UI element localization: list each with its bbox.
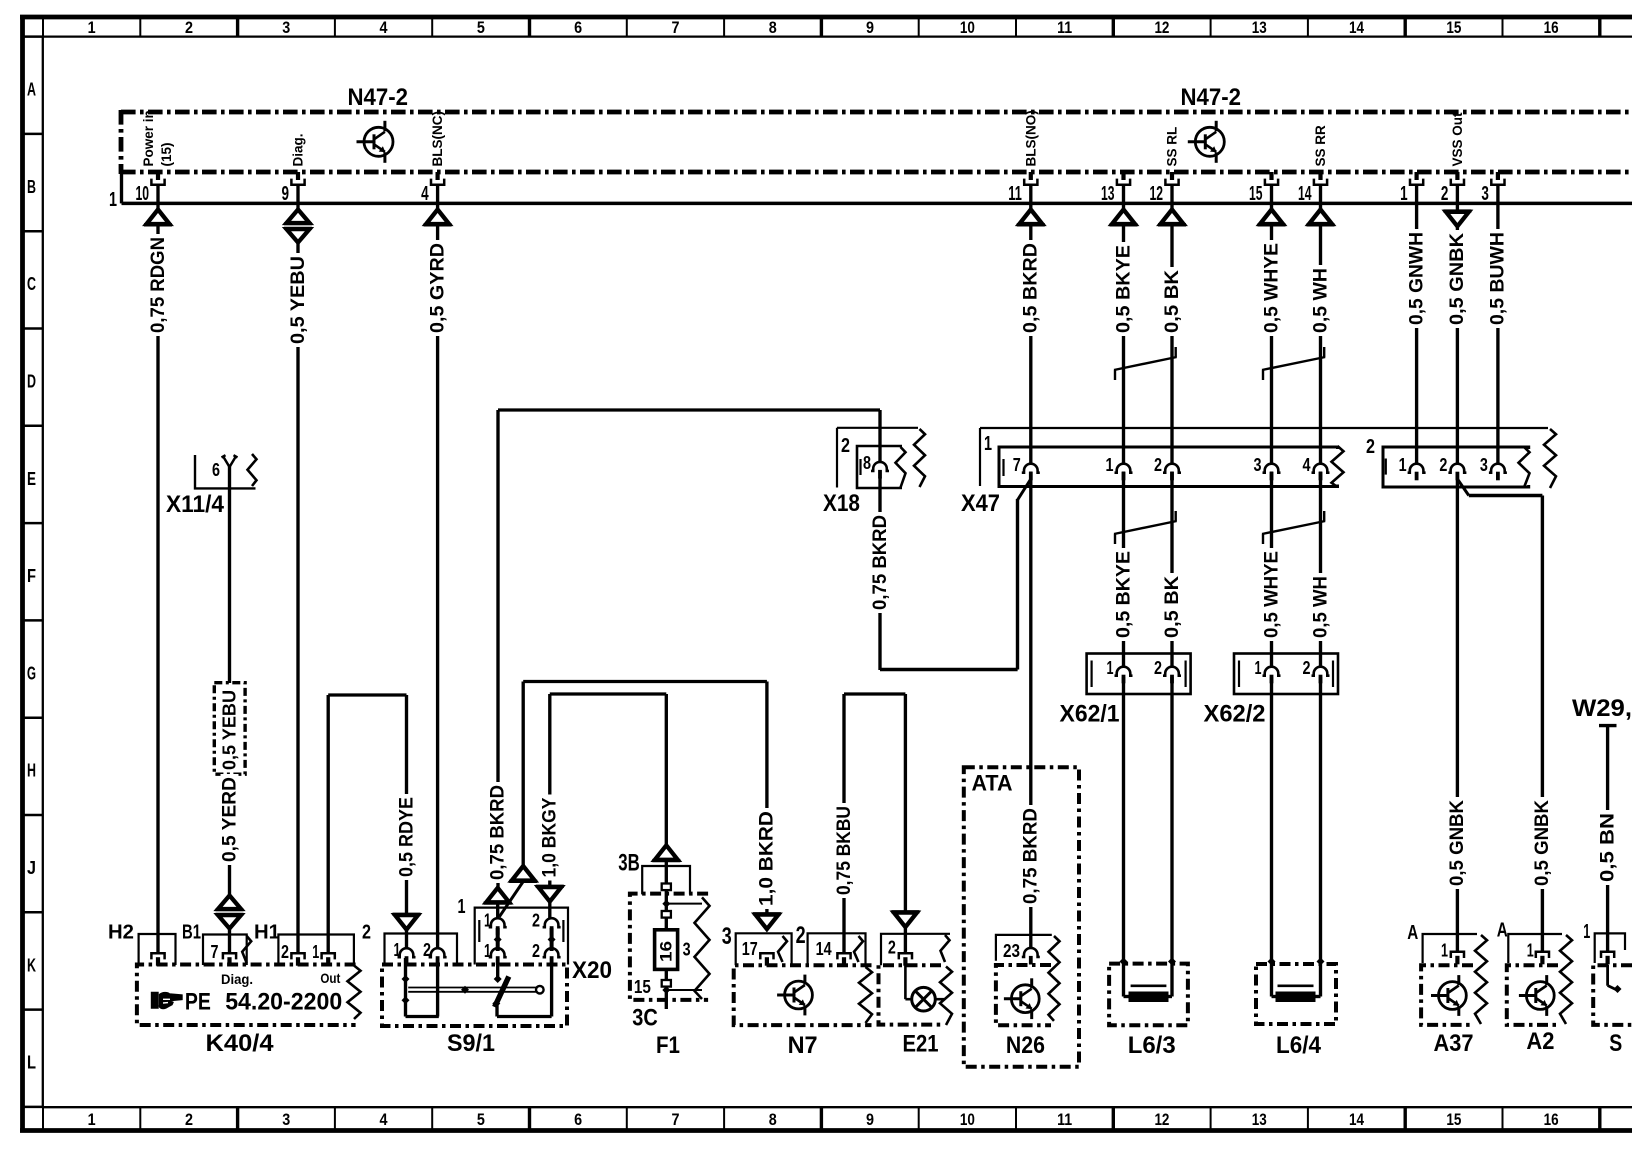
wire jog X47-2 pin2 to A2 (1457, 479, 1468, 496)
pin 13 of N47-2 at x=1123.5 (1121, 172, 1125, 180)
svg-text:0,5 GNBK: 0,5 GNBK (1447, 800, 1468, 886)
fuse element 16 of F1 (655, 930, 678, 970)
S9/1 switch blade right (496, 958, 499, 980)
wire label 1,0 BKRD (758, 808, 776, 909)
wire jog X47 pin7 to X18 branch (1018, 479, 1031, 500)
pin 9 of N47-2 at x=298.0 (296, 172, 300, 180)
connector X47 bracket with label 1 (979, 428, 981, 486)
S9/1 slider bar (408, 987, 540, 989)
wire label 0,5 GYRD (429, 240, 447, 336)
svg-text:A: A (27, 79, 36, 100)
connector X18 bracket with label 2 (836, 428, 838, 488)
wire label 0,5 GNBK to A37 (1448, 797, 1466, 889)
svg-text:16: 16 (1544, 1111, 1559, 1129)
connector X20 box over S9/1 right (475, 908, 568, 965)
pin 10 of N47-2 at x=158.0 (156, 172, 160, 180)
F1 internal wiring lower (665, 969, 668, 1009)
svg-text:0,5 YEBU: 0,5 YEBU (219, 690, 239, 770)
svg-text:C: C (27, 273, 36, 294)
wire 0,5 BKRD pin11 to X47 pin7 and N26 (1029, 185, 1032, 210)
svg-text:A37: A37 (1434, 1030, 1474, 1057)
direction arrow pin 4 wire (426, 210, 449, 225)
wire 0,75 BKRD below X18 (878, 478, 881, 671)
svg-text:1: 1 (88, 1111, 96, 1129)
svg-text:2: 2 (796, 922, 806, 949)
svg-text:54.20-2200: 54.20-2200 (225, 989, 342, 1016)
svg-text:0,75 BKRD: 0,75 BKRD (488, 785, 509, 880)
svg-text:11: 11 (1057, 1111, 1072, 1129)
junction dots on L6/3 (1120, 958, 1128, 966)
svg-text:X18: X18 (823, 490, 860, 517)
transistor icon inside N47-2 right (1195, 127, 1224, 156)
svg-text:2: 2 (1366, 436, 1375, 458)
svg-text:N7: N7 (788, 1032, 818, 1059)
pin 14 of N47-2 at x=1320.5 (1318, 172, 1322, 180)
svg-text:3: 3 (722, 923, 732, 950)
svg-text:1: 1 (312, 941, 319, 962)
svg-text:2: 2 (532, 910, 540, 931)
top ruler column separators (42, 17, 44, 37)
switch S9/1 dash-dot box (382, 965, 567, 1027)
direction arrow on N7 pin17 wire (753, 912, 781, 915)
bracket B1 with pin 7 (203, 935, 247, 966)
svg-text:(15): (15) (159, 142, 174, 166)
svg-text:BLS(NO): BLS(NO) (1023, 110, 1038, 166)
svg-text:0,5 WHYE: 0,5 WHYE (1261, 243, 1282, 333)
svg-text:X47: X47 (961, 490, 1000, 517)
svg-text:2: 2 (1154, 657, 1162, 678)
svg-text:Power in: Power in (141, 110, 156, 166)
svg-text:A2: A2 (1526, 1028, 1554, 1055)
svg-text:A: A (1497, 920, 1508, 942)
svg-text:8: 8 (769, 1111, 777, 1129)
svg-text:14: 14 (816, 938, 833, 959)
svg-text:SS RR: SS RR (1313, 125, 1328, 167)
svg-text:1: 1 (1527, 940, 1534, 961)
fuse F1 dash-dot box (630, 894, 708, 1000)
bracket connector A of A2 (1508, 934, 1562, 963)
svg-text:A: A (1407, 922, 1418, 944)
direction arrow on E21 wire (891, 910, 919, 913)
svg-text:B: B (27, 176, 36, 197)
svg-text:2: 2 (841, 435, 850, 457)
svg-text:0,5 WH: 0,5 WH (1310, 576, 1331, 638)
svg-text:Diag.: Diag. (221, 971, 253, 987)
connector X47 part 1 box (999, 447, 1338, 487)
svg-text:1: 1 (1106, 454, 1114, 475)
pointing hand icon (152, 993, 159, 1009)
svg-text:X62/1: X62/1 (1060, 701, 1120, 728)
svg-text:17: 17 (742, 938, 758, 959)
svg-text:L: L (27, 1052, 36, 1073)
bracket connector A of A37 (1423, 934, 1477, 963)
svg-text:6: 6 (574, 1111, 582, 1129)
direction arrow on F1 wire (655, 845, 678, 860)
transistor icon inside A2 (1526, 982, 1554, 1010)
svg-text:2: 2 (362, 921, 371, 943)
twisted pair crossing WHYE/WH upper (1262, 370, 1264, 380)
wire 0,5 BN from W29 to S (1606, 726, 1609, 952)
svg-text:7: 7 (671, 1111, 679, 1129)
wire label 0,5 BKRD top (1022, 240, 1040, 336)
svg-text:H1: H1 (254, 922, 280, 944)
wire label 0,75 BKRD to X20 (489, 782, 507, 883)
svg-text:10: 10 (960, 19, 975, 37)
direction arrow pin 14 wire (1309, 210, 1332, 225)
bus line 1 below N47-2 (120, 170, 123, 203)
bracket H1 with pins 2 and 1 (278, 935, 354, 966)
wire 0,5 BUWH pin3 to X47-2 (1496, 185, 1499, 464)
svg-text:SS RL: SS RL (1165, 127, 1180, 167)
speed sensor L6/4 dash-dot box (1256, 964, 1336, 1024)
wire label 0,75 BKRD to N26 (1022, 805, 1040, 907)
wire label 0,5 GNWH (1408, 229, 1426, 328)
svg-text:6: 6 (212, 459, 220, 480)
pin 4 of N47-2 at x=437.6 (436, 172, 440, 180)
svg-text:0,5 YEBU: 0,5 YEBU (288, 256, 309, 344)
svg-text:N47-2: N47-2 (348, 84, 409, 111)
pin 1 of X62/2 (1263, 667, 1281, 676)
wire label 0,5 WH top (1312, 265, 1330, 336)
bracket pin 23 of N26 (996, 935, 1052, 961)
left ruler row separators (23, 35, 43, 38)
svg-text:23: 23 (1003, 940, 1020, 961)
svg-text:PE: PE (185, 989, 211, 1016)
svg-text:E21: E21 (903, 1031, 939, 1058)
svg-text:11: 11 (1057, 19, 1072, 37)
svg-text:5: 5 (477, 19, 485, 37)
svg-text:2: 2 (532, 940, 540, 961)
F1 internal wiring (665, 890, 668, 930)
connector level 2 bracket over S9/1 (385, 934, 458, 965)
inductor symbol inside L6/3 (1131, 984, 1167, 987)
svg-text:Out: Out (320, 970, 340, 986)
svg-text:0,5 GYRD: 0,5 GYRD (427, 243, 448, 333)
wire X18 riser to X20 branch line (878, 410, 881, 462)
direction arrow on wire to X20 pin1 (512, 866, 535, 881)
pin 15 of N47-2 at x=1271.5 (1269, 172, 1273, 180)
pin 3 of X47 part 2 (1489, 464, 1507, 473)
wire 0,5 GNBK pin2 to X47-2 (1456, 185, 1459, 211)
svg-text:X11/4: X11/4 (166, 491, 225, 518)
svg-text:0,5 YERD: 0,5 YERD (219, 777, 240, 862)
svg-text:4: 4 (380, 19, 389, 37)
svg-text:1: 1 (1107, 657, 1114, 678)
wire 0,5 GNWH pin1 to X47-2 (1415, 185, 1418, 464)
svg-text:8: 8 (863, 452, 871, 473)
svg-text:15: 15 (1446, 19, 1461, 37)
svg-text:3: 3 (282, 19, 290, 37)
transistor icon inside N47-2 left (364, 127, 393, 156)
svg-text:Diag.: Diag. (291, 133, 306, 166)
wire 0,5 WH pin14 to X47 (1319, 185, 1322, 210)
svg-text:BLS(NC): BLS(NC) (430, 111, 445, 167)
svg-text:N47-2: N47-2 (1181, 84, 1242, 111)
pin 3 of X47 part 1 (1263, 464, 1281, 473)
svg-text:2: 2 (1303, 657, 1311, 678)
direction arrow pin 2 wire (VSS Out) (1443, 209, 1471, 212)
svg-text:2: 2 (185, 1111, 193, 1129)
wire label 0,5 GNBK to A2 (1533, 797, 1551, 889)
wire label 0,5 YERD (221, 774, 239, 865)
connector X18 inner box (857, 446, 902, 488)
wire N7 pin14 to E21 (0,75 BKBU) (844, 692, 905, 695)
control module A37 dash-dot box (1421, 965, 1473, 1025)
direction arrow pin 12 wire (1161, 210, 1184, 225)
wire N7 pin17 branch to X20 (upper line) (523, 680, 767, 683)
svg-text:1: 1 (88, 19, 96, 37)
lamp E21 dash-dot box (879, 965, 942, 1024)
wire 0,75 BKRD into X20 pin1 vertical (496, 903, 499, 919)
svg-text:13: 13 (1252, 19, 1267, 37)
svg-text:1: 1 (458, 896, 466, 918)
svg-text:1,0 BKGY: 1,0 BKGY (540, 797, 561, 877)
svg-text:0,5 GNBK: 0,5 GNBK (1532, 800, 1553, 886)
svg-text:0,5 RDYE: 0,5 RDYE (396, 797, 417, 877)
svg-text:9: 9 (866, 19, 874, 37)
wire 0,5 BK pin12 to X47 (1170, 185, 1173, 210)
svg-text:F: F (27, 565, 36, 586)
svg-text:1: 1 (1441, 940, 1448, 961)
svg-text:L6/4: L6/4 (1276, 1032, 1322, 1059)
bracket pin 2 of E21 (881, 934, 950, 966)
svg-text:10: 10 (960, 1111, 975, 1129)
svg-text:1,0 BKRD: 1,0 BKRD (757, 811, 778, 906)
svg-text:0,5 BK: 0,5 BK (1162, 270, 1183, 333)
pin 1 of X62/1 (1115, 667, 1133, 676)
svg-text:H: H (27, 760, 36, 781)
wires X62/2 to L6/4 (1270, 677, 1273, 997)
svg-text:X62/2: X62/2 (1204, 701, 1266, 728)
wire 0,5 WHYE X47 to X62/2 (1270, 472, 1273, 667)
svg-text:0,5 BK: 0,5 BK (1162, 576, 1183, 638)
wire label 0,5 WH lower (1312, 573, 1330, 641)
svg-text:9: 9 (866, 1111, 874, 1129)
wire K40/4 Out pin1 to X20 pin1 (0,5 RDYE) (327, 695, 330, 953)
wire 0,5 BKYE pin13 to X47 (1122, 185, 1125, 210)
svg-text:1: 1 (109, 189, 117, 211)
pin 2 of X62/2 (1312, 667, 1330, 676)
bottom ruler column separators (42, 1107, 44, 1130)
switch S dash-dot box at right edge (1593, 965, 1632, 1025)
svg-text:8: 8 (769, 19, 777, 37)
svg-text:W29,: W29, (1572, 695, 1632, 722)
X20 mating pin columns (496, 928, 500, 951)
connector X47 part 2 box (1383, 447, 1529, 487)
svg-text:6: 6 (574, 19, 582, 37)
svg-text:D: D (27, 371, 36, 392)
fuse and relay module K40/4 dash-dot box (137, 965, 356, 1026)
wire label 0,5 BUWH (1489, 229, 1507, 328)
svg-text:0,5 BN: 0,5 BN (1597, 813, 1618, 882)
pin 2 of N47-2 at x=1457.4 (1455, 172, 1459, 180)
F1 curly continuation edge (695, 897, 710, 999)
svg-text:0,75 BKBU: 0,75 BKBU (834, 806, 855, 895)
wire label 0,5 BK top (1163, 267, 1181, 336)
pin 1 of X47 part 1 (1115, 464, 1133, 473)
wire X20 pin2 to F1 (1,0 BKGY) (550, 692, 667, 695)
wire label 0,5 BKYE top (1115, 242, 1133, 336)
pin 4 of X47 part 1 (1312, 464, 1330, 473)
svg-text:15: 15 (634, 976, 651, 997)
pin 1 of N47-2 at x=1416.6 (1414, 172, 1418, 180)
svg-text:4: 4 (1303, 454, 1312, 475)
svg-text:J: J (27, 857, 36, 878)
svg-text:2: 2 (185, 19, 193, 37)
bracket pin 17 of N7 (736, 933, 792, 965)
svg-text:4: 4 (380, 1111, 389, 1129)
svg-text:12: 12 (1154, 1111, 1169, 1129)
wire label 0,75 BKBU (835, 803, 853, 898)
svg-text:G: G (27, 662, 36, 683)
transistor icon inside A37 (1439, 982, 1467, 1010)
diagonal wire into X20 pin 1 (499, 882, 523, 917)
svg-text:N26: N26 (1006, 1032, 1045, 1059)
pin 1 of X47 part 2 (1408, 464, 1426, 473)
svg-text:E: E (27, 468, 36, 489)
wire label 0,5 WHYE lower (1263, 548, 1281, 641)
direction arrow on RDYE wire (393, 913, 421, 916)
wire label 0,75 RDGN (149, 234, 167, 336)
svg-text:7: 7 (1013, 454, 1021, 475)
E21 internal wire to lamp (904, 965, 907, 999)
pin 2 of X47 part 2 (1448, 464, 1466, 473)
bracket pin 14 of N7 (808, 933, 866, 965)
svg-text:1: 1 (1399, 454, 1407, 475)
svg-text:14: 14 (1349, 1111, 1365, 1129)
wire 0,5 BK X47 to X62/1 (1170, 472, 1173, 667)
svg-text:7: 7 (211, 941, 219, 962)
direction arrow pin 10 wire (147, 210, 170, 225)
pin 7 of X47 part 1 (1022, 464, 1040, 473)
svg-text:L6/3: L6/3 (1128, 1032, 1176, 1059)
svg-text:S: S (1609, 1030, 1622, 1057)
direction arrow on 0,75 BKRD wire (486, 888, 509, 903)
wire X47-2 pin2 to A37 (1456, 479, 1459, 952)
pin of H2 (151, 953, 164, 959)
svg-text:0,5 GNBK: 0,5 GNBK (1447, 233, 1468, 325)
svg-text:0,5 BKYE: 0,5 BKYE (1113, 551, 1134, 638)
transistor icon inside N26 (1011, 985, 1039, 1013)
S9/1 internal left contact wires (404, 958, 407, 1017)
pin 2 of X47 part 1 (1163, 464, 1181, 473)
bracket 3B over F1 (642, 866, 690, 894)
svg-text:3: 3 (282, 1111, 290, 1129)
wire X11/4 pin6 to K40/4 pin7 (228, 466, 231, 683)
svg-text:0,5 BKYE: 0,5 BKYE (1113, 245, 1134, 333)
svg-text:16: 16 (657, 941, 676, 962)
svg-text:B1: B1 (182, 922, 201, 944)
direction arrow pin 15 wire (1260, 210, 1283, 225)
junction dots on L6/4 (1268, 958, 1276, 966)
svg-text:ATA: ATA (972, 771, 1013, 796)
direction arrow pin 13 wire (1112, 210, 1135, 225)
control unit N47-2 dash-dot box (121, 110, 1632, 115)
switch lever inside S (1606, 965, 1609, 986)
svg-text:0,5 GNWH: 0,5 GNWH (1406, 232, 1427, 325)
svg-text:3: 3 (1480, 454, 1488, 475)
svg-text:0,75 BKRD: 0,75 BKRD (1021, 808, 1042, 904)
wire 0,5 WH X47 to X62/2 (1319, 472, 1322, 667)
direction arrow pin 11 wire (1019, 210, 1042, 225)
inner border of drawing area (43, 35, 1632, 37)
wire 0,5 GYRD pin4 to X20 (436, 185, 439, 210)
svg-text:K40/4: K40/4 (206, 1030, 275, 1057)
pin 3 of N47-2 at x=1497.9 (1496, 172, 1500, 180)
control module N7 dash-dot box (734, 965, 872, 1025)
twisted pair crossing WHYE/WH lower (1262, 534, 1264, 544)
pin 23 arc of N26 (1022, 948, 1040, 957)
svg-text:H2: H2 (108, 922, 134, 944)
svg-text:3B: 3B (618, 850, 640, 877)
pin 12 of N47-2 at x=1172.0 (1170, 172, 1174, 180)
svg-text:S9/1: S9/1 (447, 1030, 495, 1057)
svg-text:K: K (27, 954, 36, 975)
wire label 0,5 WHYE top (1263, 240, 1281, 336)
control module A2 dash-dot box (1507, 965, 1558, 1025)
svg-text:0,5 BUWH: 0,5 BUWH (1488, 232, 1509, 325)
svg-text:16: 16 (1544, 19, 1559, 37)
wire label 0,5 BK lower (1163, 573, 1181, 641)
pin 11 of N47-2 at x=1030.8 (1029, 172, 1033, 180)
direction arrow on BKGY wire (536, 885, 564, 888)
connector X62/1 box (1087, 654, 1191, 695)
double direction arrow pin 9 wire (287, 210, 310, 224)
wire label 0,5 YEBU top (289, 253, 307, 347)
svg-text:X20: X20 (572, 957, 612, 984)
wire label 0,5 RDYE (398, 794, 416, 880)
svg-text:0,5 WH: 0,5 WH (1310, 268, 1331, 333)
pin 2 of X62/1 (1163, 667, 1181, 676)
svg-text:2: 2 (1154, 454, 1162, 475)
inductor symbol inside L6/4 (1278, 984, 1314, 987)
svg-text:7: 7 (671, 19, 679, 37)
connector X11/4 bracket (195, 455, 256, 488)
twisted pair crossing BKYE/BK upper (1114, 370, 1116, 380)
svg-text:12: 12 (1154, 19, 1169, 37)
svg-text:3: 3 (1254, 454, 1262, 475)
wire label 0,5 BKYE lower (1115, 548, 1133, 641)
wire label 0,5 BN (1599, 810, 1617, 885)
svg-text:2: 2 (281, 941, 289, 962)
antitheft alarm ATA dash-dot box (964, 767, 1079, 1066)
svg-text:5: 5 (477, 1111, 485, 1129)
speed sensor L6/3 dash-dot box (1109, 964, 1188, 1026)
wire label 0,75 BKRD below X18 (871, 512, 889, 613)
pin 8 of X18 (871, 462, 889, 471)
transistor icon inside N7 (785, 981, 813, 1009)
control module N26 dash-dot box (996, 965, 1051, 1025)
svg-text:3C: 3C (632, 1005, 658, 1032)
svg-text:F1: F1 (656, 1032, 680, 1059)
wire label 0,5 GNBK top (1448, 230, 1466, 328)
double direction arrow on YERD wire (218, 896, 241, 910)
lamp symbol inside E21 (912, 987, 936, 1011)
svg-text:14: 14 (1349, 19, 1365, 37)
svg-text:1: 1 (984, 433, 992, 455)
twisted pair crossing BKYE/BK lower (1114, 534, 1116, 544)
wire 0,5 WHYE pin15 to X47 (1270, 185, 1273, 210)
svg-text:0,5 WHYE: 0,5 WHYE (1261, 551, 1282, 638)
svg-text:1: 1 (1583, 921, 1590, 943)
wire 0,75 RDGN pin10 to K40/4 (156, 185, 159, 210)
bracket H2 on K40/4 (139, 934, 176, 965)
svg-text:VSS Out: VSS Out (1450, 112, 1465, 167)
bracket pin 1 of S (1595, 933, 1625, 963)
connector X62/2 box (1234, 654, 1338, 695)
wire label 1,0 BKGY (541, 795, 559, 881)
svg-text:13: 13 (1252, 1111, 1267, 1129)
